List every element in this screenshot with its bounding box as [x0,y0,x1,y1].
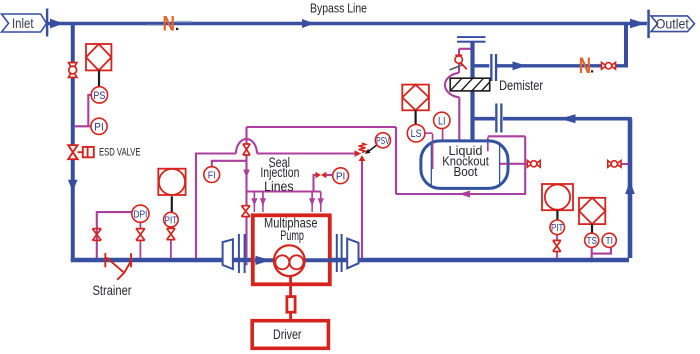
vent stack top bars [457,36,486,38]
gate valve below branch 1 [92,229,101,241]
arrow recycle bottom left [459,191,470,198]
wire vent hook arc around demister [445,73,459,98]
wire riser to knockout [628,119,633,258]
diamond-square TS [579,198,605,224]
svg-text:TS: TS [586,236,597,247]
wire seal manifold [246,190,321,192]
instrument PI left [91,118,107,134]
svg-text:Boot: Boot [454,164,478,179]
wire bypass line top [48,22,647,25]
svg-text:Outlet: Outlet [656,16,689,31]
wire boot recycle bottom [396,193,526,195]
seal manifold drop arrows [251,192,324,213]
wire PI branch vertical [314,175,316,192]
wire LI drop [442,129,444,143]
wire TS drain [591,247,593,258]
arrow drop 2 [262,192,264,206]
reducer cone right of pump [347,239,358,269]
instrument FI [204,167,220,183]
svg-text:TI: TI [605,236,613,247]
wire seal top line y127 [247,126,397,128]
wire boot recycle left vertical x396 [395,127,397,194]
link to PIT2 [556,210,558,220]
arrow bypass end right before outlet [630,19,646,29]
shaft pump to coupling [289,276,292,296]
flange pair demister outlet [490,54,492,81]
wire vessel top nozzle line [473,117,496,121]
svg-text:Driver: Driver [273,326,302,342]
instrument PIT2 [550,220,565,235]
wire suction inside pump box [255,258,276,262]
arrow drop 1 [254,192,256,206]
wire line hop over seal vertical [236,139,257,154]
diamond-square LS [402,85,429,111]
pump symbol circles [274,245,305,276]
wire vent stack vertical [470,42,474,140]
diamond-square PS [86,44,111,70]
flow element FE1 circle-square [158,169,185,195]
instrument TS [585,233,599,247]
valve riser stub bowtie-circle [608,161,621,168]
svg-text:Strainer: Strainer [93,282,132,298]
svg-text:PIT: PIT [165,215,178,226]
svg-text:Injection: Injection [260,165,299,180]
wire seal supply riser x196 [196,154,236,259]
gate valve below DPI [136,229,145,241]
wire FI branch [212,161,246,167]
vent angle valve symbol [450,55,467,70]
stubs to pump box [254,205,256,212]
gate valve seal supply upper [243,144,250,155]
arrow PSV pointer black [369,145,377,151]
knockout boot vessel [421,141,508,189]
inlet flange bar [46,9,48,37]
arrow bypass mid right [302,19,315,28]
svg-text:PI: PI [94,121,104,133]
demister hatched box [450,78,490,91]
instrument LI [434,112,450,128]
wire TI elbow [592,248,611,254]
instrument PIT1 [164,212,179,227]
gate valve below PIT1 [167,228,175,239]
outlet flange bar [647,10,650,38]
instrument PSV [375,133,390,148]
driver box [252,321,328,349]
arrow seal supply down [243,170,250,178]
wire DPI drop [139,222,141,258]
coupling rectangle [287,297,295,313]
valve boot drain bowtie-circle [527,161,540,168]
svg-text:PI: PI [336,171,346,183]
wire PIT1 drop [170,227,172,258]
instrument TI [602,233,616,247]
svg-text:FI: FI [208,170,216,182]
strainer [105,253,131,280]
svg-text:Demister: Demister [499,78,543,93]
wire PI branch to PI circle [326,174,332,176]
instrument PI seal [333,168,349,184]
arrow return line left [560,114,576,123]
wire seal injection vertical x246.5 [245,127,247,265]
wire bottom main suction/discharge line [71,258,629,262]
arrow left drop down [68,180,78,192]
svg-text:LS: LS [411,128,422,140]
inlet flag [2,14,47,32]
valve vapor line bowtie-circle [602,62,616,69]
wire boot drain nozzle [506,163,528,165]
wire LS connector [425,133,433,169]
svg-text:Pump: Pump [280,228,304,243]
svg-text:Lines: Lines [264,179,294,194]
instrument LS [407,124,425,142]
gate valve seal supply lower [241,206,250,217]
wire level bridle top tap [487,137,489,151]
wire left drop from inlet tee [71,24,75,146]
wire PS PI connector [75,95,92,126]
link to PIT1 [171,196,173,212]
svg-text:PSV: PSV [376,136,390,147]
wire riser stub valve line [621,163,629,165]
arrow drop 4 [320,192,322,206]
reducer cone left of pump [223,239,233,269]
arrow pump inlet right [256,256,271,265]
wire vapor line corner up to bypass [624,24,628,68]
arrow seal line into PSV (red tip) [355,150,362,157]
svg-text:LI: LI [438,115,446,127]
svg-text:N: N [579,53,591,78]
wire demister vapor outlet line [473,64,490,67]
wire discharge inside pump box [303,258,336,262]
wire seal line to PSV [257,152,356,154]
wire level bridle standpipe [524,136,526,194]
instrument PS [91,87,107,103]
link to LS [415,110,417,124]
svg-text:DPI: DPI [133,209,147,221]
ghost line artifacts near N1 [146,24,163,26]
instrument DPI [132,205,149,222]
arrow inlet right [50,19,64,29]
wire DPI bracket [97,212,132,258]
ESD valve [68,145,94,159]
wire vent hook top elbow [459,49,471,73]
gate valve below PIT2 [553,240,561,251]
svg-text:PS: PS [93,90,105,102]
arrow drop 3 [311,192,313,206]
flow element FE2 circle-square [542,184,573,210]
link to TS [591,224,593,233]
valve PI branch bowtie [315,172,326,179]
wire return line into vessel [503,117,632,121]
flange pair vessel return [495,104,497,133]
shaft coupling to driver [289,314,292,320]
arrow demister line right [513,61,527,70]
svg-text:Bypass Line: Bypass Line [310,0,367,15]
arrow riser up [625,181,635,195]
relief valve PSV [355,143,365,161]
PURPLE-LINES [75,49,629,265]
wire level bridle top run [488,135,525,137]
BLUE-LINES [48,24,647,261]
outlet flag [651,16,695,32]
valve ball on left drop [69,63,77,78]
svg-text:Inlet: Inlet [12,15,34,31]
flange pair pump suction [238,234,240,273]
wire PSV drop to discharge [361,157,363,259]
wire vent hook vertical below [458,97,460,142]
flange pair pump discharge [336,234,338,272]
pump box Multiphase Pump [253,215,330,284]
svg-text:N: N [163,13,176,36]
wire PIT2 stub [556,235,558,258]
wire level taps inside vessel [433,142,508,169]
svg-text:PIT: PIT [551,223,564,234]
svg-text:ESD VALVE: ESD VALVE [99,147,141,159]
link to PS [98,70,100,87]
